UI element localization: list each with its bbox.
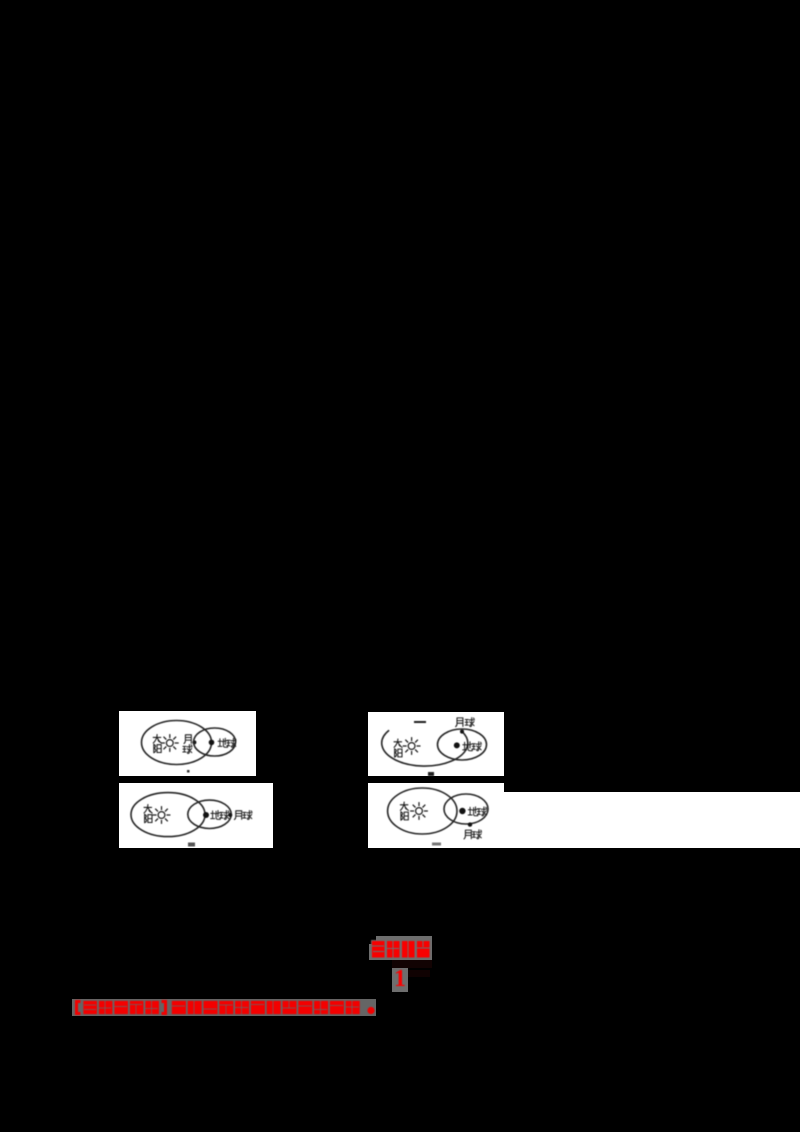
choice mark A — [187, 770, 190, 773]
black notch on header top-left — [369, 936, 376, 944]
earth dot B — [454, 742, 460, 748]
earth orbit small ellipse A — [194, 728, 236, 756]
bracketed char 5 — [145, 1001, 159, 1015]
moon dot D — [468, 822, 472, 826]
earth orbit small ellipse D — [444, 794, 488, 824]
label taiyang A (sun) stacked — [153, 735, 161, 753]
label taiyang B stacked — [394, 739, 402, 757]
label diqiu A (earth) — [218, 738, 236, 747]
footer highlight band (gray) — [72, 999, 376, 1016]
ghost answer text row 1 (very faint) — [392, 960, 432, 968]
moon dot B — [460, 730, 464, 734]
earth dot C — [203, 812, 209, 818]
sun symbol C — [153, 806, 171, 824]
sentence char 6 — [251, 1001, 266, 1015]
moon dot C — [228, 813, 232, 817]
top dash of orbit B — [414, 721, 426, 723]
bracketed char 4 — [130, 1001, 144, 1015]
sun symbol B — [403, 737, 421, 755]
sentence char 2 — [187, 1001, 202, 1015]
label taiyang C stacked — [144, 805, 152, 823]
label diqiu B — [463, 742, 482, 751]
label yueqiu B (moon) horizontal — [456, 718, 475, 727]
sentence char 9 — [298, 1001, 313, 1015]
sentence char 5 — [235, 1001, 250, 1015]
sentence char 11 — [330, 1001, 345, 1015]
sentence char 3 — [203, 1001, 218, 1015]
label yueqiu A (moon) stacked — [183, 735, 192, 754]
answer number 1 (red) — [391, 966, 409, 990]
bracketed char 3 — [114, 1001, 128, 1015]
sun orbit big ellipse A — [142, 721, 212, 765]
white panel A (top-left diagram) — [119, 711, 256, 776]
sentence char 1 — [172, 1001, 187, 1015]
sun orbit open arc B — [382, 730, 468, 766]
sentence char 10 — [314, 1001, 329, 1015]
sentence char 7 — [266, 1001, 281, 1015]
full stop — [367, 1007, 374, 1014]
white panel D (bottom-right diagram) — [368, 783, 504, 848]
earth orbit small ellipse C — [188, 800, 231, 828]
choice mark C — [188, 843, 195, 847]
sentence char 4 — [219, 1001, 234, 1015]
bracketed char 1 — [83, 1001, 97, 1015]
label taiyang D stacked — [400, 802, 408, 820]
label diqiu C — [211, 811, 229, 820]
label yueqiu D below — [464, 830, 482, 839]
sentence char 8 — [282, 1001, 297, 1015]
answer header highlight (gray, L-shaped) — [369, 936, 432, 960]
earth dot A — [209, 740, 215, 746]
earth dot D — [459, 808, 465, 814]
bracketed char 2 — [99, 1001, 113, 1015]
white band right of panel D — [503, 792, 800, 848]
sentence char 12 — [345, 1001, 360, 1015]
answer header red text (can-kao-da-an) — [368, 936, 432, 960]
white panel B (top-right diagram) — [368, 712, 504, 776]
moon dot A — [192, 740, 196, 744]
sun symbol A — [161, 734, 179, 752]
ghost answer text row 2 (very faint) — [408, 970, 430, 977]
earth orbit small ellipse B — [438, 729, 487, 760]
footer red bold text line — [72, 999, 376, 1016]
choice mark B — [428, 772, 434, 776]
left bracket — [75, 1000, 81, 1015]
label yueqiu C horizontal — [234, 811, 252, 820]
sun orbit big ellipse D — [388, 788, 457, 834]
label diqiu D — [468, 807, 486, 816]
choice mark D — [432, 843, 441, 846]
answer number highlight (gray) — [392, 968, 408, 992]
white panel C (bottom-left diagram) — [119, 783, 273, 848]
right bracket — [162, 1000, 168, 1015]
sun orbit big ellipse C — [131, 793, 205, 837]
sun symbol D — [410, 802, 428, 820]
